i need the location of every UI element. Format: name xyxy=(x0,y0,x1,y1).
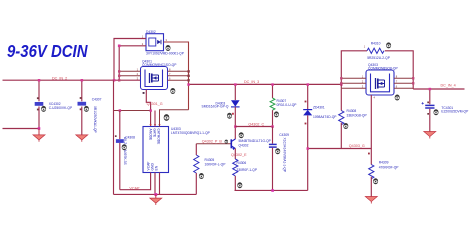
wire R4310 rail xyxy=(341,51,367,89)
junction x188.5 main xyxy=(187,83,190,86)
svg-text:Q4302_E: Q4302_E xyxy=(231,153,247,157)
svg-text:5R2512U-2-QP: 5R2512U-2-QP xyxy=(367,56,391,60)
svg-text:R4307: R4307 xyxy=(277,99,287,103)
junction Q4303_G left xyxy=(307,147,310,150)
capacitor C4308 xyxy=(115,111,135,190)
svg-text:R4308: R4308 xyxy=(347,109,357,113)
junction gnd rail xyxy=(154,193,157,196)
dni icon C4309 xyxy=(275,148,280,154)
wire Q4302 emitter to R4306 xyxy=(234,148,236,159)
svg-text:5M4BT54D1LT1G-QP: 5M4BT54D1LT1G-QP xyxy=(239,139,272,143)
wire main bus DC_IN_4 xyxy=(413,88,464,90)
svg-text:C4309: C4309 xyxy=(279,133,289,137)
svg-text:Q4302: Q4302 xyxy=(239,143,249,147)
ideal diode controller U4303 xyxy=(143,127,211,173)
capacitor C4307 xyxy=(78,80,102,135)
junction R4307 main xyxy=(271,83,274,86)
dni icon Q4301 xyxy=(170,88,175,94)
svg-text:ANODE: ANODE xyxy=(149,129,153,142)
junction D4303 main xyxy=(234,83,237,86)
junction TC4301 main xyxy=(429,88,432,91)
pin mark ZD4301 xyxy=(305,101,307,103)
dni icon C4307 xyxy=(84,106,89,112)
transistor Q4303 xyxy=(366,63,398,95)
capacitor C4309 xyxy=(269,127,289,191)
pin mark R4309 xyxy=(368,153,370,155)
dni icon Q4303 xyxy=(395,95,400,101)
svg-text:E2200U5DVM-QP: E2200U5DVM-QP xyxy=(441,109,469,113)
dni icon R4309 xyxy=(373,178,378,184)
svg-text:Q4302_P_B: Q4302_P_B xyxy=(202,140,223,144)
dni icon C4308 xyxy=(122,144,127,150)
resistor R4310 xyxy=(364,42,413,89)
dni icon R4305 xyxy=(199,173,204,179)
diode module D4302 xyxy=(146,30,185,56)
wire main drop D4303 branch xyxy=(234,85,236,101)
wire Q4302 base xyxy=(196,143,231,145)
resistor R4307 green xyxy=(270,85,297,127)
wire U4303 gnd pins down xyxy=(155,173,160,195)
wire D4303 to collector node xyxy=(234,107,236,139)
dni icon XC4302 xyxy=(41,106,46,112)
transistor Q4301 xyxy=(141,60,178,90)
svg-text:X1C04140V0KA1-1-QP: X1C04140V0KA1-1-QP xyxy=(282,138,286,173)
svg-text:GATE: GATE xyxy=(153,129,157,139)
dni icon Q4302 xyxy=(239,132,244,138)
svg-text:470KR0F-QP: 470KR0F-QP xyxy=(379,165,400,169)
ground under C4307 xyxy=(76,135,88,142)
wire gate sense left xyxy=(114,110,151,112)
svg-text:330R0F-1-QP: 330R0F-1-QP xyxy=(237,168,258,172)
wire main bus left DC_IN_2 xyxy=(3,79,141,81)
dni icon R4308 xyxy=(343,123,348,129)
dni icon Q4302_P_B xyxy=(225,140,228,144)
ground under R4309 xyxy=(365,197,377,204)
junction dots right bus xyxy=(187,70,189,72)
svg-text:EN: EN xyxy=(155,165,159,170)
capacitor XC4302 xyxy=(35,80,73,128)
junction Q4302_C xyxy=(234,125,237,128)
junction dots left bus xyxy=(118,70,120,72)
svg-text:9-36V DCIN: 9-36V DCIN xyxy=(7,41,88,61)
pin mark Q4301 gate xyxy=(143,92,145,94)
junction pin2 corner xyxy=(118,45,121,48)
junction dots Q4303 left xyxy=(340,77,342,79)
junction XC4302 tap xyxy=(38,79,41,82)
dni icon R4307 xyxy=(274,111,279,117)
dni icon U4303 xyxy=(164,114,170,121)
wire left ground stub xyxy=(3,128,40,130)
svg-text:Q4301_G: Q4301_G xyxy=(147,102,163,106)
svg-text:R4309: R4309 xyxy=(379,161,389,165)
svg-text:1098A4T4D-QP: 1098A4T4D-QP xyxy=(313,115,337,119)
svg-text:DC_IN_4: DC_IN_4 xyxy=(441,84,456,88)
junction dots Q4303 right xyxy=(412,77,414,79)
diode D4303 xyxy=(202,100,240,108)
wire Q4301 gate xyxy=(146,90,150,127)
dni icon D4302 xyxy=(166,45,171,51)
junction stub corner xyxy=(38,127,41,130)
svg-text:C-U2500VK-QP: C-U2500VK-QP xyxy=(49,106,73,110)
junction C4307 tap xyxy=(81,79,84,82)
wire Q4301 source pins xyxy=(168,71,189,80)
svg-text:VCAP: VCAP xyxy=(129,186,140,190)
pin mark D4303 xyxy=(232,113,234,115)
svg-text:ZD4301: ZD4301 xyxy=(313,105,325,109)
junction Q4302_C right xyxy=(271,125,274,128)
svg-text:0R1/250VKA1-QP: 0R1/250VKA1-QP xyxy=(93,106,97,134)
svg-text:3VY1092/VMD-00001-QP: 3VY1092/VMD-00001-QP xyxy=(146,52,185,56)
junction C4308 tap xyxy=(119,109,122,112)
ground under XC4302 xyxy=(33,129,45,142)
resistor R4306 xyxy=(233,159,258,190)
svg-text:0R0J-0-U-QP: 0R0J-0-U-QP xyxy=(277,103,298,107)
svg-text:DC_IN_3: DC_IN_3 xyxy=(244,80,259,84)
ground under U4303 xyxy=(150,194,162,205)
svg-text:SMD16JGP-GP-Q: SMD16JGP-GP-Q xyxy=(202,105,229,109)
svg-text:LMT4700QDBVRQ1-1-QP: LMT4700QDBVRQ1-1-QP xyxy=(171,131,211,135)
transistor Q4302 xyxy=(231,139,271,150)
wire Q4303 left pins xyxy=(341,78,366,88)
svg-text:Q4303_G: Q4303_G xyxy=(349,144,365,148)
dni icon R4310 xyxy=(386,42,391,48)
resistor R4309 xyxy=(369,149,400,197)
wire left drop from main xyxy=(113,80,115,194)
dni icon D4303 xyxy=(227,113,232,119)
wire EN bottom rail xyxy=(114,193,197,195)
junction gate-sense xyxy=(150,109,152,111)
svg-text:CATHODE: CATHODE xyxy=(157,129,161,146)
wire Q4303 gate xyxy=(370,95,372,149)
resistor R4308 xyxy=(339,88,368,148)
resistor R4305 xyxy=(194,144,226,195)
wire net Q4303_G xyxy=(308,148,372,150)
svg-text:A9-Z406A097K-3S: A9-Z406A097K-3S xyxy=(123,137,127,165)
wire VCAP loop xyxy=(120,173,151,190)
wire main bus right DC_IN_3 xyxy=(189,83,342,85)
wire Q4303 right pins xyxy=(394,78,413,88)
junction bottom rail xyxy=(271,189,274,192)
pin arrows U4303 top xyxy=(149,124,160,126)
wire D4302 pin1 xyxy=(114,39,146,81)
wire D4302 pin3 xyxy=(164,42,189,110)
wire net Q4302_C xyxy=(235,126,272,128)
wire D4302 pin2 xyxy=(119,46,146,80)
svg-text:C4307: C4307 xyxy=(92,97,102,101)
svg-text:R4306: R4306 xyxy=(237,161,247,165)
dni icon R4306 xyxy=(237,182,242,188)
wire bottom rail mid xyxy=(235,189,308,191)
zener ZD4301 xyxy=(303,85,337,191)
dni icon TC4301 xyxy=(434,109,439,115)
wire cathode sense right xyxy=(160,110,189,127)
junction R4308 main xyxy=(340,83,343,86)
wire Q4301 drain pins xyxy=(119,71,140,75)
capacitor TC4301 xyxy=(422,89,470,132)
ground under TC4301 xyxy=(424,132,436,139)
svg-text:Q4302_C: Q4302_C xyxy=(248,122,264,126)
svg-text:33EK0G8-QP: 33EK0G8-QP xyxy=(347,114,368,118)
svg-text:10KR0F-L-QP: 10KR0F-L-QP xyxy=(205,163,227,167)
svg-text:R4310: R4310 xyxy=(371,42,381,46)
junction main line x114 xyxy=(113,79,116,82)
svg-text:R4305: R4305 xyxy=(205,158,215,162)
junction ZD4301 main xyxy=(307,83,310,86)
